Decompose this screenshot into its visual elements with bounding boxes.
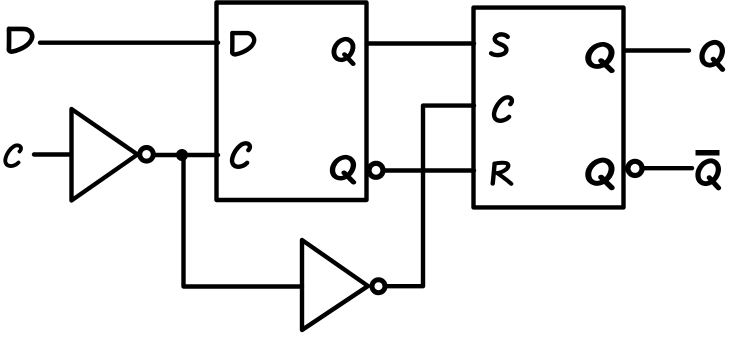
inverter U1 bubble	[140, 148, 154, 162]
wire Q2 output	[624, 48, 689, 52]
latch U4 box	[474, 8, 624, 208]
label Q output	[702, 42, 723, 69]
bubble Qbar U3	[369, 163, 383, 177]
label S pin U4	[491, 34, 508, 55]
label Q pin U4 top	[588, 44, 612, 70]
flip-flop U3 box	[217, 3, 367, 201]
label C pin U4	[494, 97, 512, 120]
label C input	[5, 145, 21, 166]
overline Qbar output	[696, 150, 720, 156]
label R pin U4	[493, 163, 512, 184]
junction dot node CN	[176, 149, 188, 161]
label D pin U3	[232, 33, 254, 54]
wire C input to inverter U1	[34, 152, 71, 156]
wire U1 output to FF1 C	[154, 153, 218, 157]
wire U2 output up to FF2 C	[386, 106, 474, 287]
wire D input to FF1	[40, 41, 218, 45]
label C pin U3	[232, 143, 250, 166]
wire Q1 to S	[367, 41, 475, 45]
inverter U2 triangle	[302, 240, 368, 330]
label Q pin U3	[334, 39, 353, 64]
bubble Qbar U4	[628, 161, 642, 175]
wire Qbar1 to R	[384, 168, 474, 172]
inverter U1 triangle	[72, 109, 138, 201]
wire node CN down	[184, 155, 303, 287]
label Qbar pin U3	[332, 157, 353, 182]
label Qbar output	[698, 161, 719, 188]
label Qbar pin U4 bottom	[588, 160, 612, 188]
wire Qbar2 output	[644, 166, 692, 170]
label D input	[9, 29, 32, 52]
inverter U2 bubble	[372, 280, 385, 293]
